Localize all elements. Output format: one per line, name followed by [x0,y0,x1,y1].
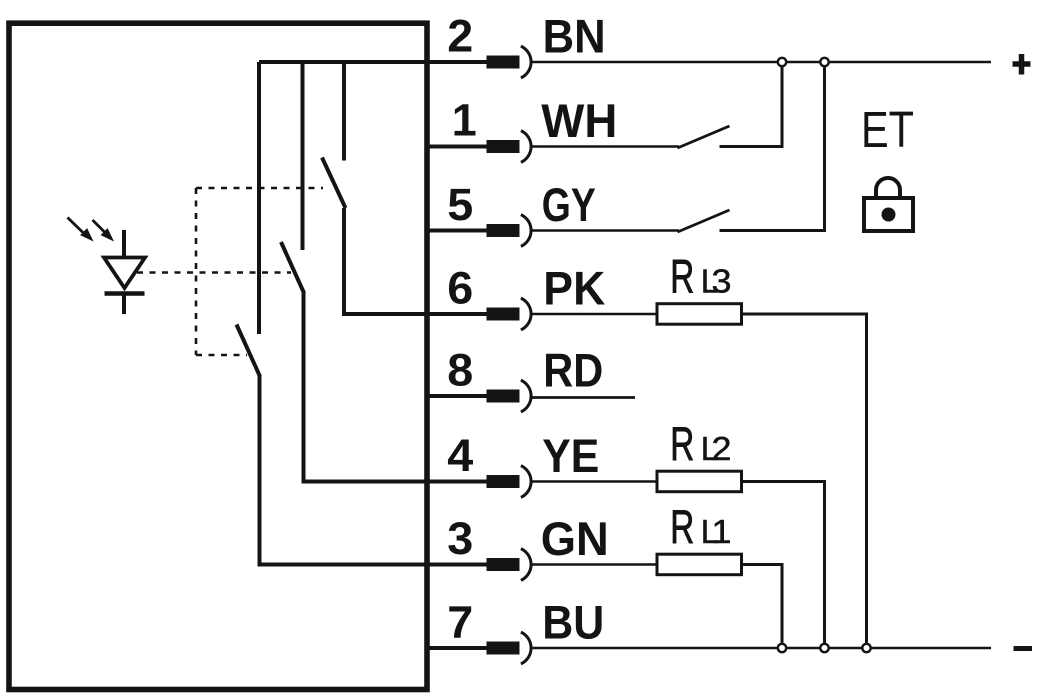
pin 1 connector (stub, plug, socket) [425,131,531,163]
svg-text:RD: RD [543,344,603,397]
svg-text:1: 1 [712,513,732,550]
svg-text:8: 8 [447,345,473,396]
svg-text:6: 6 [447,263,473,314]
svg-text:R: R [670,501,694,554]
svg-text:4: 4 [447,430,473,481]
pin 8 connector (stub, plug, socket) [425,380,531,412]
wire: PK line to resistor RL3 [532,313,658,316]
wire: internal vertical branch to switch S1 [342,62,346,161]
device enclosure box [9,23,427,689]
photodiode D1 anode lead [122,230,126,258]
wire: RL1 to node, down to - rail [742,565,783,649]
svg-text:BU: BU [542,596,604,649]
svg-text:3: 3 [447,513,473,564]
pin 3 connector (stub, plug, socket) [425,549,531,581]
svg-text:5: 5 [447,179,473,230]
- supply terminal [1014,646,1033,651]
switch S2 blade (NO contact) [281,242,304,293]
node on - rail (RL2 junction) [820,644,828,652]
photodiode D1 cathode lead [122,296,126,315]
pin 2 connector (stub, plug, socket) [425,46,531,78]
dashed actuation link from D1 to S2 [137,271,291,274]
resistor RL3 body [657,304,742,325]
resistor RL3 label [670,250,731,303]
dashed actuation link to S3 [196,354,247,357]
dashed actuation link to S1 [196,187,323,190]
svg-text:ET: ET [861,101,914,158]
wire: internal vertical branch to switch S3 [257,62,261,334]
wire: WH line to external switch [532,145,680,148]
svg-text:2: 2 [447,11,473,62]
external switch on WH blade [678,126,730,148]
resistor RL1 label [670,501,731,554]
wire: RD stub line (unconnected) [532,396,636,399]
svg-text:PK: PK [543,262,605,315]
node on - rail (RL1 junction) [778,644,786,652]
wire: GY switch to node, up to + rail [720,62,825,231]
wire: internal top bus at y=62 [259,60,429,64]
wire: BU line (- rail) [532,647,992,650]
resistor RL2 label [670,418,731,471]
pin 4 connector (stub, plug, socket) [425,466,531,498]
pin 5 connector (stub, plug, socket) [425,215,531,247]
wire: S1 lower wire down to pin 6 line [344,208,429,314]
svg-text:BN: BN [543,10,606,63]
svg-text:R: R [670,250,694,303]
wire: S2 lower wire down to pin 4 line [304,292,430,482]
svg-text:YE: YE [542,429,599,482]
svg-text:WH: WH [541,94,617,147]
wire: GY line to external switch [532,229,680,232]
wire: RL3 to node, down to - rail [742,314,867,648]
svg-text:7: 7 [447,597,473,648]
resistor RL1 body [657,554,742,575]
switch S3 blade (NO contact) [237,325,261,377]
svg-text:GY: GY [542,178,596,231]
wire: RL2 to node, down to - rail [742,482,825,649]
external switch on GY blade [678,210,730,232]
wire: S3 lower wire down to pin 3 line [260,376,430,565]
dashed actuation link: vertical [195,188,198,355]
svg-text:1: 1 [452,95,477,146]
photodiode D1 cathode bar [105,291,145,296]
node on + rail (GY junction) [820,58,828,66]
pin 6 connector (stub, plug, socket) [425,298,531,330]
pin 7 connector (stub, plug, socket) [425,632,531,664]
svg-text:2: 2 [712,430,732,467]
wire: internal vertical branch to switch S2 [301,62,305,250]
wire: BN line to + rail [532,61,992,64]
node on + rail (WH junction) [778,58,786,66]
svg-text:3: 3 [712,262,732,299]
svg-text:GN: GN [541,512,609,565]
photodiode D1 triangle [104,258,145,289]
light arrow 1 into photodiode [68,218,94,242]
+ supply terminal [1013,54,1031,75]
wire: YE line to resistor RL2 [532,480,658,483]
light arrow 2 into photodiode [93,220,115,242]
svg-text:R: R [670,418,694,471]
pin number 1 [452,95,477,146]
node on - rail (RL3 junction) [862,644,870,652]
wire: WH switch to node, up to + rail [720,62,783,147]
lock icon [864,178,913,231]
resistor RL2 body [657,471,742,492]
wire: GN line to resistor RL1 [532,563,658,566]
switch S1 blade (NO contact) [322,158,346,209]
